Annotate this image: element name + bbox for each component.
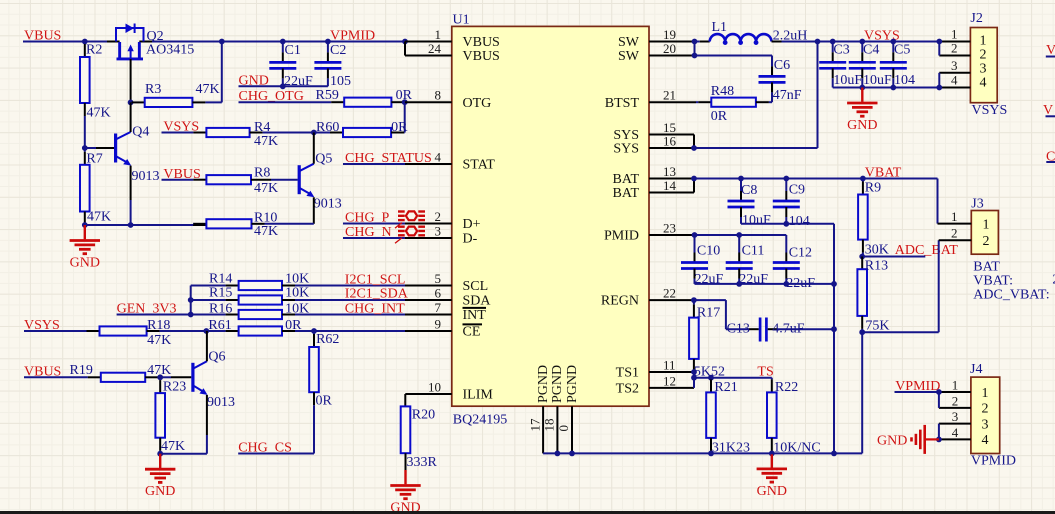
- wire C1 C2 ground: [239, 85, 328, 87]
- svg-text:R59: R59: [316, 88, 339, 103]
- node C4 top: [859, 39, 865, 45]
- ground below R22: [757, 453, 787, 499]
- wire R23 to Q6 emitter: [160, 453, 207, 455]
- differential pair directive on CHG_P: [395, 211, 425, 228]
- resistor R3: [131, 82, 222, 107]
- node J4 pin4: [936, 437, 942, 443]
- J3 label BAT: [973, 260, 1000, 275]
- svg-text:23: 23: [663, 220, 676, 235]
- svg-text:AO3415: AO3415: [146, 43, 194, 58]
- svg-text:R61: R61: [208, 318, 231, 333]
- connector J2: [970, 11, 1007, 118]
- wire OTG riser to R60: [404, 102, 406, 132]
- wire VPMID to J4: [895, 391, 939, 393]
- svg-text:TS2: TS2: [616, 382, 639, 397]
- wire CHG_OTG: [239, 101, 345, 103]
- node R18 R61 Q6: [203, 328, 209, 334]
- net label GEN_3V3: [117, 302, 177, 317]
- resistor R48: [696, 84, 772, 124]
- node gnd riser at rail: [831, 451, 837, 457]
- resistor R22: [767, 378, 821, 456]
- ground below R7: [70, 225, 100, 271]
- node OTG: [402, 99, 408, 105]
- svg-text:INT: INT: [463, 308, 487, 323]
- node C4 bottom: [859, 85, 865, 91]
- node R16 tap: [188, 312, 194, 318]
- wire Q6 collector riser: [206, 331, 208, 361]
- net label ADC_BAT: [895, 243, 958, 258]
- wire CHG_N: [343, 237, 405, 239]
- svg-text:BAT: BAT: [613, 172, 640, 187]
- net label CHG_CS: [238, 441, 292, 456]
- svg-text:GND: GND: [757, 484, 787, 499]
- svg-text:47K: 47K: [161, 439, 185, 454]
- wire PGND rail: [543, 452, 862, 454]
- node R9 R13: [859, 254, 865, 260]
- capacitor C8: [728, 179, 772, 228]
- net label VBUS at R8: [163, 167, 200, 182]
- net label VSYS at R4: [163, 120, 199, 135]
- svg-text:30K: 30K: [865, 243, 889, 258]
- J4 pins: [939, 377, 971, 439]
- svg-text:4: 4: [980, 76, 987, 91]
- svg-text:J2: J2: [970, 11, 982, 26]
- resistor R15: [191, 286, 405, 305]
- wire PMID caps ground: [695, 283, 835, 285]
- wire L1 to VSYS caps: [772, 41, 940, 43]
- net label VBUS: [24, 29, 61, 44]
- svg-text:R62: R62: [316, 332, 339, 347]
- svg-text:CE: CE: [463, 325, 481, 340]
- svg-text:D+: D+: [463, 217, 481, 232]
- svg-text:1: 1: [952, 377, 959, 392]
- node SW tie bottom: [692, 53, 698, 59]
- svg-text:C2: C2: [330, 43, 346, 58]
- svg-text:21: 21: [663, 88, 676, 103]
- svg-text:R18: R18: [147, 318, 170, 333]
- svg-text:10K: 10K: [285, 301, 309, 316]
- svg-text:R20: R20: [412, 408, 435, 423]
- wire Q4 collector riser: [130, 102, 132, 132]
- capacitor C6: [759, 56, 802, 104]
- svg-text:R4: R4: [254, 120, 270, 135]
- svg-text:4: 4: [952, 425, 959, 440]
- wire R13 bottom to rail: [861, 332, 863, 453]
- wire VBUS to Q2 source: [23, 41, 120, 43]
- svg-text:9013: 9013: [132, 169, 160, 184]
- svg-text:2: 2: [951, 226, 958, 241]
- svg-text:13: 13: [663, 164, 676, 179]
- wire SW to L1: [695, 41, 710, 43]
- node Q2 gate / R3: [128, 100, 134, 106]
- capacitor C4: [849, 42, 892, 89]
- node SW tie top: [692, 39, 698, 45]
- svg-text:I2C1_SCL: I2C1_SCL: [345, 273, 406, 288]
- svg-text:VBUS: VBUS: [463, 49, 500, 64]
- net label VBAT: [865, 166, 902, 181]
- svg-text:2: 2: [980, 48, 987, 63]
- transistor Q2 (PMOS AO3415): [116, 24, 194, 59]
- svg-text:R8: R8: [254, 166, 270, 181]
- wire pin20 to C6: [695, 55, 773, 57]
- svg-text:BQ24195: BQ24195: [453, 412, 507, 427]
- svg-text:VPMID: VPMID: [971, 454, 1016, 469]
- wire big gnd riser: [833, 224, 835, 454]
- svg-text:333R: 333R: [407, 455, 438, 470]
- svg-text:C3: C3: [833, 43, 849, 58]
- svg-text:R3: R3: [145, 82, 161, 97]
- svg-text:Q4: Q4: [132, 124, 149, 139]
- node C5 top: [890, 39, 896, 45]
- U1 PGND pins 17 18 0: [527, 365, 580, 454]
- wire I2C pullup rail: [190, 286, 192, 315]
- node gnd riser at PMID caps: [831, 281, 837, 287]
- transistor Q4 (9013): [114, 124, 160, 184]
- svg-text:R23: R23: [163, 379, 186, 394]
- svg-text:SCL: SCL: [463, 279, 489, 294]
- svg-text:R15: R15: [209, 286, 232, 301]
- wire C8 C9 ground: [741, 223, 834, 225]
- node SYS: [691, 145, 697, 151]
- net label VSYS top: [864, 29, 900, 44]
- wire Q6 base: [160, 376, 191, 378]
- node BAT: [691, 176, 697, 182]
- svg-text:20: 20: [663, 41, 676, 56]
- ground below R20: [390, 470, 420, 514]
- wire R3 riser: [221, 42, 223, 103]
- capacitor C1: [269, 42, 313, 90]
- svg-text:16: 16: [663, 133, 677, 148]
- svg-text:10K: 10K: [285, 286, 309, 301]
- svg-text:R21: R21: [714, 380, 737, 395]
- svg-text:GND: GND: [70, 256, 100, 271]
- capacitor C13 4.7uF: [726, 318, 834, 342]
- node Q6 base: [157, 374, 163, 380]
- node C9 bottom: [783, 221, 789, 227]
- svg-text:2: 2: [951, 41, 958, 56]
- node R22 bottom: [769, 451, 775, 457]
- svg-text:0R: 0R: [711, 109, 728, 124]
- node C9 top: [783, 176, 789, 182]
- wire ADC_BAT: [862, 256, 925, 258]
- svg-text:R22: R22: [775, 380, 798, 395]
- node C2 top: [325, 39, 331, 45]
- node R21 bottom: [708, 451, 714, 457]
- U1 pin 10 ILIM: [405, 379, 493, 406]
- svg-text:R48: R48: [711, 84, 734, 99]
- net label CHG_OTG: [239, 89, 304, 104]
- svg-text:4: 4: [435, 149, 442, 164]
- node J2 pin4 gnd: [936, 85, 942, 91]
- svg-text:1: 1: [951, 27, 958, 42]
- svg-text:C1: C1: [285, 43, 301, 58]
- resistor R23: [155, 377, 186, 454]
- svg-text:PMID: PMID: [604, 229, 639, 244]
- wire REGN corner: [694, 300, 726, 329]
- node TS1: [691, 369, 697, 375]
- svg-text:2: 2: [952, 393, 959, 408]
- svg-text:24: 24: [428, 41, 442, 56]
- transistor Q5 (9013): [298, 152, 342, 212]
- resistor R20: [401, 406, 438, 470]
- partial net label V (right edge top): [1046, 43, 1055, 58]
- svg-text:ILIM: ILIM: [463, 388, 494, 403]
- node R9 top: [860, 176, 866, 182]
- svg-text:VBUS: VBUS: [463, 35, 500, 50]
- svg-text:4.7uF: 4.7uF: [772, 322, 805, 337]
- svg-text:C6: C6: [774, 58, 790, 73]
- svg-text:D-: D-: [463, 232, 478, 247]
- net label I2C1_SCL: [345, 273, 406, 288]
- svg-text:ADC_VBAT:: ADC_VBAT:: [973, 287, 1049, 302]
- resistor R60: [314, 120, 408, 137]
- svg-text:GND: GND: [847, 118, 877, 133]
- resistor R8: [206, 166, 297, 197]
- svg-text:10uF: 10uF: [833, 73, 862, 88]
- svg-text:8: 8: [435, 88, 442, 103]
- svg-text:BAT: BAT: [613, 186, 640, 201]
- capacitor C11: [726, 235, 769, 287]
- sheet bottom border: [0, 511, 1055, 514]
- svg-text:SDA: SDA: [463, 294, 492, 309]
- wire J4 pins 1-2 tie: [938, 392, 940, 408]
- node gnd riser at C13: [831, 326, 837, 332]
- svg-text:VBAT: VBAT: [865, 166, 902, 181]
- svg-text:3: 3: [982, 417, 989, 432]
- wire R20 bottom: [405, 453, 407, 470]
- resistor R18: [100, 318, 207, 348]
- svg-text:104: 104: [789, 214, 810, 229]
- svg-text:47K: 47K: [254, 134, 278, 149]
- wire Q6 emitter riser: [206, 395, 208, 454]
- svg-text:10: 10: [428, 379, 441, 394]
- svg-text:0R: 0R: [391, 120, 408, 135]
- svg-text:C11: C11: [742, 244, 765, 259]
- svg-text:PGND: PGND: [565, 365, 580, 403]
- svg-text:C9: C9: [789, 182, 805, 197]
- svg-text:I2C1_SDA: I2C1_SDA: [345, 287, 409, 302]
- node C1 bottom: [280, 83, 286, 89]
- svg-text:R9: R9: [865, 181, 881, 196]
- svg-text:47K: 47K: [196, 82, 220, 97]
- wire PMID caps rail: [695, 234, 787, 236]
- svg-text:10uF: 10uF: [863, 73, 892, 88]
- resistor R14: [191, 272, 405, 290]
- svg-text:BAT: BAT: [973, 260, 1000, 275]
- svg-text:47nF: 47nF: [773, 88, 802, 103]
- wire Q4 emitter riser: [130, 166, 132, 225]
- capacitor C3: [819, 42, 862, 89]
- resistor R7: [80, 148, 111, 225]
- svg-text:47K: 47K: [147, 333, 171, 348]
- svg-text:SW: SW: [618, 49, 640, 64]
- svg-text:R7: R7: [86, 152, 102, 167]
- node R4 R60 Q5: [311, 130, 317, 136]
- resistor R9: [858, 179, 889, 258]
- node J2 pin1 tie: [936, 39, 942, 45]
- net label VBUS at R19: [24, 364, 61, 379]
- svg-text:12: 12: [663, 373, 676, 388]
- svg-text:1: 1: [435, 27, 442, 42]
- svg-text:0: 0: [556, 425, 571, 432]
- resistor R10: [193, 211, 314, 240]
- svg-text:STAT: STAT: [463, 158, 496, 173]
- svg-text:PGND: PGND: [536, 365, 551, 403]
- wire BAT tie: [693, 179, 695, 193]
- U1 left pins: [405, 27, 500, 340]
- capacitor C9: [773, 179, 810, 229]
- svg-text:C5: C5: [894, 43, 910, 58]
- svg-text:SW: SW: [618, 35, 640, 50]
- svg-text:VPMID: VPMID: [330, 29, 375, 44]
- svg-text:3: 3: [951, 58, 958, 73]
- node PGND stub 0: [569, 451, 575, 457]
- node VSYS SYS riser: [815, 39, 821, 45]
- svg-text:1: 1: [951, 209, 958, 224]
- node REGN: [691, 297, 697, 303]
- svg-text:10K: 10K: [285, 272, 309, 287]
- svg-text:2: 2: [982, 402, 989, 417]
- wire J3 pin2 riser: [862, 240, 939, 332]
- svg-text:R17: R17: [697, 306, 720, 321]
- wire VBUS to R8: [162, 179, 207, 181]
- wire TS tie: [693, 372, 695, 388]
- svg-text:OTG: OTG: [463, 96, 492, 111]
- node Q4 base: [82, 145, 88, 151]
- node R3 top: [219, 39, 225, 45]
- node R7 bottom: [82, 222, 88, 228]
- svg-text:104: 104: [894, 73, 915, 88]
- svg-text:R13: R13: [865, 258, 888, 273]
- svg-text:47K: 47K: [87, 210, 111, 225]
- svg-text:J3: J3: [971, 197, 983, 212]
- wire VSYS to R18: [24, 330, 100, 332]
- J3 note ADC_VBAT: [973, 287, 1049, 302]
- wire pin24 drop: [404, 42, 406, 56]
- node C11 bottom: [736, 281, 742, 287]
- resistor R17: [689, 300, 725, 379]
- svg-text:7: 7: [435, 300, 442, 315]
- node C3 top: [830, 39, 836, 45]
- node R13 bottom: [859, 329, 865, 335]
- svg-text:C10: C10: [697, 244, 720, 259]
- net label TS: [757, 365, 773, 380]
- svg-text:4: 4: [951, 73, 958, 88]
- partial net label V (right edge mid): [1043, 103, 1055, 118]
- net label CHG_STATUS: [345, 151, 432, 166]
- svg-text:18: 18: [542, 419, 557, 432]
- svg-text:1: 1: [982, 386, 989, 401]
- wire Q2 drain to VPMID rail: [139, 41, 405, 43]
- svg-text:6: 6: [435, 285, 442, 300]
- svg-text:17: 17: [527, 418, 542, 432]
- ground at J4 (rotated): [877, 425, 939, 454]
- svg-text:TS1: TS1: [616, 366, 639, 381]
- svg-text:PGND: PGND: [550, 365, 565, 403]
- wire SW tie: [694, 42, 696, 56]
- svg-text:19: 19: [663, 27, 676, 42]
- wire emitter gnd rail: [85, 224, 207, 226]
- capacitor C12: [773, 235, 816, 291]
- svg-text:GND: GND: [145, 484, 175, 499]
- svg-text:C8: C8: [741, 183, 757, 198]
- node R62 tap: [311, 328, 317, 334]
- net label VSYS at R18: [24, 318, 60, 333]
- svg-text:3: 3: [952, 409, 959, 424]
- wire J2 pins 3-4 tie: [938, 73, 940, 88]
- J2 pins: [939, 27, 970, 88]
- wire SYS riser: [817, 42, 819, 149]
- svg-text:Q6: Q6: [208, 349, 225, 364]
- wire VSYS to R4: [162, 132, 207, 134]
- inductor L1 2.2uH: [710, 20, 808, 45]
- node C8 top: [738, 176, 744, 182]
- svg-text:9013: 9013: [207, 395, 235, 410]
- resistor R2: [80, 42, 111, 149]
- wire GEN_3V3: [117, 314, 191, 316]
- resistor R59: [316, 88, 413, 107]
- J3 note VBAT: [973, 273, 1055, 289]
- svg-text:47K: 47K: [254, 224, 278, 239]
- resistor R16: [191, 301, 405, 319]
- wire Q5 emitter riser: [313, 197, 315, 224]
- node R23 bottom: [157, 451, 163, 457]
- svg-text:9013: 9013: [314, 197, 342, 212]
- svg-text:2: 2: [983, 234, 990, 249]
- node C1 top: [280, 39, 286, 45]
- node R2 top: [82, 39, 88, 45]
- wire VBAT corner to J3: [937, 179, 939, 224]
- net label I2C1_SDA: [345, 287, 409, 302]
- node C12 bottom: [783, 281, 789, 287]
- svg-text:C12: C12: [789, 245, 812, 260]
- svg-text:U1: U1: [453, 12, 470, 27]
- wire SYS tie: [693, 135, 695, 149]
- svg-text:1: 1: [980, 34, 987, 49]
- capacitor C2: [314, 42, 351, 90]
- net label CHG_INT: [345, 302, 405, 317]
- svg-text:14: 14: [663, 178, 677, 193]
- svg-text:9: 9: [435, 316, 442, 331]
- connector J3: [971, 197, 998, 255]
- capacitor C5: [880, 42, 915, 89]
- svg-text:SYS: SYS: [613, 142, 639, 157]
- node PGND stub 18: [555, 451, 561, 457]
- resistor R61: [206, 318, 405, 336]
- resistor R13: [857, 257, 889, 334]
- op-amp U1 body (BQ24195): [452, 12, 649, 427]
- wire SYS to riser: [694, 147, 818, 149]
- wire Q4 base: [85, 147, 114, 149]
- svg-text:REGN: REGN: [601, 294, 639, 309]
- partial net label C (right edge): [1046, 149, 1055, 164]
- svg-text:2: 2: [435, 209, 442, 224]
- svg-text:3: 3: [980, 62, 987, 77]
- resistor R19: [70, 363, 172, 382]
- svg-text:47K: 47K: [87, 106, 111, 121]
- node R21 top: [708, 375, 714, 381]
- wire VSYS caps ground: [833, 87, 940, 89]
- wire CHG_CS: [238, 453, 314, 455]
- net label VPMID: [330, 29, 375, 44]
- wire TS: [694, 377, 772, 379]
- node C10 top: [692, 232, 698, 238]
- svg-text:5: 5: [435, 271, 442, 286]
- svg-text:R19: R19: [70, 363, 93, 378]
- svg-text:3: 3: [435, 223, 442, 238]
- svg-text:C13: C13: [727, 322, 750, 337]
- ground below C4: [847, 88, 877, 134]
